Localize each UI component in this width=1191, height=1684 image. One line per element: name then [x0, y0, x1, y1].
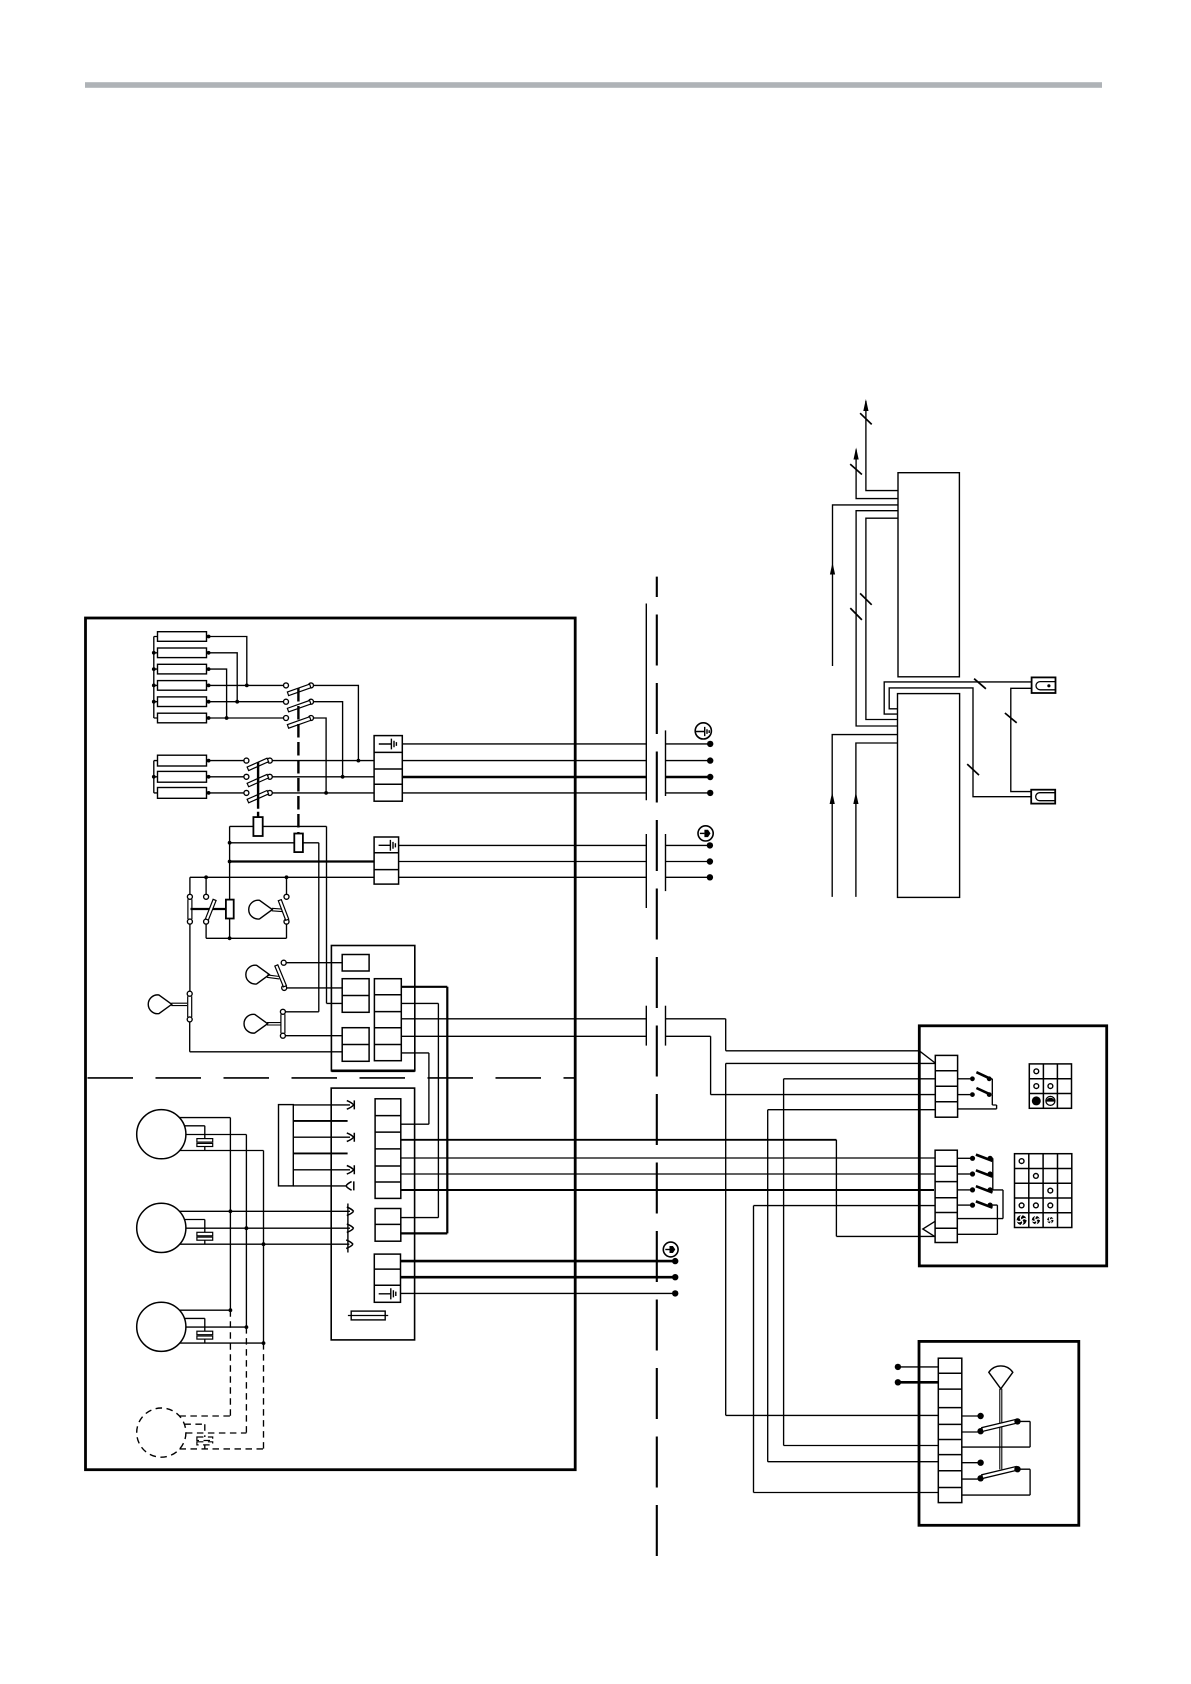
wire P2 to lamp connector CN2: [889, 688, 1031, 797]
KS3 wires: [286, 963, 342, 988]
wire W2 through MC1: [230, 843, 319, 1012]
vane sensor: [989, 1366, 1013, 1389]
compressor motor M1: [137, 1110, 186, 1159]
FB contact set 2: [962, 1462, 978, 1464]
contactor coil MC1 (drives K1): [294, 834, 303, 853]
control return wire: [206, 937, 286, 939]
heater bank A (6 resistors R1-R6): [158, 632, 207, 723]
wire CB u1 to fan box FB: [726, 1063, 939, 1415]
CB contact l1: [957, 1157, 970, 1159]
wire X3 to CB terminal 3: [666, 1036, 936, 1094]
optional motor M4 (dashed): [137, 1310, 264, 1457]
connector interface X2 bars: [645, 834, 647, 908]
arrowhead up (mid line): [830, 563, 835, 575]
cable break slash: [967, 764, 979, 775]
entry diagonal: [919, 1051, 935, 1063]
wire P2 to lamp connector CN1: [884, 682, 1031, 714]
RB2 out c5: [401, 1173, 935, 1175]
bank B left bus: [154, 761, 158, 793]
bank A terminal dots: [207, 635, 211, 720]
wire R3 to row6: [207, 669, 227, 718]
relay unit RB2: [331, 1088, 414, 1340]
CB contact u2: dots and blade: [958, 1078, 970, 1080]
CB contact u3: dots and blade: [958, 1094, 970, 1096]
fan box FB (bottom right): [919, 1341, 1079, 1525]
power supply symbol G3: [663, 1242, 678, 1257]
breaker F1 (capsule): [189, 877, 191, 894]
junction dot: [341, 775, 345, 779]
RB1 output terminal column: [374, 979, 401, 1061]
wire P1 pin4 to P2: [856, 511, 898, 726]
cable break slash: [974, 679, 986, 689]
arrowhead up: [830, 792, 835, 804]
junction dot: [235, 700, 239, 704]
junction dots: [229, 1209, 266, 1246]
earth terminal symbol G1: [695, 723, 711, 739]
RB1 relay cell C: [342, 1028, 369, 1062]
relay unit RB1: [331, 946, 414, 1071]
RB1 relay cell A: [342, 955, 369, 972]
bank A left bus: [154, 637, 158, 719]
K1 mechanical link (dashed): [297, 688, 299, 834]
earth symbol in TB1: [379, 739, 397, 750]
junction dots: [204, 875, 288, 879]
connector interface X3 bars: [645, 1006, 647, 1046]
refrigerant pipe box P2 (bottom): [898, 694, 960, 898]
X2 wire end dots: [707, 842, 713, 880]
arrowhead up: [854, 448, 859, 460]
arrowhead up: [863, 399, 868, 411]
RB1 out5 to RB2: [401, 1053, 429, 1124]
CNB wire 2: [293, 1120, 347, 1122]
switch K2 pole c: [207, 792, 244, 794]
RB1 out4: [401, 1035, 646, 1037]
cable break slash: [860, 413, 872, 424]
terminal block TB2: [374, 837, 399, 884]
FB input stub 2 (bold): [895, 1379, 901, 1385]
RB1 out1 (bold) to RB2: [401, 987, 448, 1234]
cable break slash: [860, 593, 872, 604]
switch K1 pole b: [207, 701, 284, 703]
fork into CB cells 5/6: [923, 1221, 935, 1236]
cable break slash: [850, 464, 862, 474]
cable break slash: [850, 608, 862, 620]
field wiring divider (vertical dashed): [656, 577, 658, 1559]
wire CB u4 to FB: [768, 1110, 939, 1462]
key switch KS2: [148, 995, 172, 1014]
RB2 middle terminal column: [375, 1209, 401, 1242]
FB input stub 1: [895, 1364, 901, 1370]
heater bank B (3 resistors R7-R9): [158, 755, 207, 798]
key switch KS3: [246, 965, 270, 984]
wire P2 down-left arrow 2: [856, 743, 898, 897]
connector CN2: [1031, 790, 1055, 804]
switch K2 pole b: [207, 776, 244, 778]
battery feed wire (bold): [230, 860, 375, 862]
connector CN1: [1032, 677, 1056, 693]
RB2 lower terminal column: [374, 1254, 400, 1302]
MC3 mechanical link (bold): [191, 908, 226, 910]
TB2 wires to connector: [399, 844, 647, 846]
RB2 out c4: [401, 1157, 935, 1159]
control bus vertical: [229, 826, 231, 938]
wire P1 pin5 to P2: [866, 518, 898, 719]
fuse F2: [351, 1311, 385, 1320]
contactor coil MC2 (drives K2): [253, 817, 262, 836]
CB indicator grid 4x5: [1015, 1154, 1072, 1228]
compressor motor M2: [137, 1203, 186, 1252]
power supply symbol G2: [698, 826, 713, 841]
terminal block TB1: [374, 736, 402, 802]
bank B terminal dots: [207, 759, 211, 795]
wire end dots: [672, 1258, 678, 1297]
fan icons: [1017, 1215, 1054, 1225]
junction dot: [225, 716, 229, 720]
section divider (horizontal dashed): [88, 1077, 576, 1079]
control box CB (indoor): [919, 1026, 1106, 1266]
CB lower terminal column: [935, 1150, 957, 1242]
CNB wire 4: [293, 1152, 347, 1154]
connector interface X1 bars: [645, 604, 647, 801]
RB1 out3: [401, 1018, 646, 1020]
RB2 upper terminal column: [375, 1099, 401, 1199]
X2 field-side wires: [666, 844, 710, 846]
bus junction dot: [152, 775, 156, 779]
wire CB l4 to FB: [754, 1206, 939, 1493]
switch K1 pole c: [207, 717, 284, 719]
RB2 out c6: [401, 1189, 934, 1191]
wire W1 through MC2: [230, 826, 343, 1003]
CB indicator grid 3x3: [1029, 1064, 1071, 1108]
bus junction dots: [152, 651, 156, 704]
wire P1 pin2 to up-arrow: [856, 450, 898, 499]
connector block CNB: [279, 1105, 294, 1186]
K2 mechanical link (solid): [257, 762, 259, 817]
junction dots: [228, 841, 232, 940]
arrowhead up: [853, 792, 858, 804]
CNB wire 3 with plug arrow: [293, 1136, 350, 1138]
earth symbol in TB2: [379, 840, 396, 851]
plug arrows into RB2: [347, 1207, 354, 1216]
switch K1 pole a: [207, 684, 284, 686]
X1 wire end dots: [707, 741, 713, 796]
outdoor unit enclosure box: [86, 618, 576, 1470]
CNB wire 1 with plug arrow: [293, 1104, 350, 1106]
switch capsule S2: [187, 991, 192, 996]
X1 field-side wires: [666, 743, 711, 745]
motor bus verticals: [230, 1118, 263, 1344]
FB terminal column: [938, 1358, 962, 1502]
wire R2 to row5: [207, 653, 238, 702]
cable break slash: [1005, 713, 1017, 723]
RB1 relay cell B: [342, 979, 369, 1013]
CB contact l4: [957, 1204, 970, 1206]
RB1 out2 to RB2: [401, 1003, 439, 1217]
RB2 out c3 (bold) to CB jog: [401, 1139, 837, 1141]
CB contact l3: [957, 1189, 970, 1191]
TB1 wires to connector: [402, 743, 646, 745]
earth symbol in RB2: [379, 1288, 396, 1299]
junction dots: [229, 1308, 266, 1345]
switch K2 pole a: [207, 760, 244, 762]
wire CN1 to CN2: [1011, 688, 1032, 791]
wire P1 pin3 open-ended: [833, 505, 899, 666]
wire CB u2 to FB: [784, 1079, 939, 1446]
key switch KS4: [244, 1014, 268, 1033]
compressor motor M3: [137, 1302, 186, 1351]
KS4 bottom wire: [285, 1035, 342, 1037]
header rule: [85, 82, 1102, 88]
control wire to TB2: [190, 876, 374, 878]
CB contact l2: [957, 1173, 970, 1175]
wire S2 to relay unit: [190, 1022, 343, 1052]
wire P2 down-left arrow 1: [832, 735, 897, 897]
wire P1 pin1 to up-arrow: [866, 401, 898, 491]
wire R1 to row4: [207, 637, 247, 686]
CNB wire 5 with plug arrow: [293, 1169, 350, 1171]
CB upper terminal column: [935, 1055, 957, 1117]
FB contact set 1: [962, 1415, 978, 1417]
key switch KS1: [249, 900, 273, 919]
protector relay coil MC3: [226, 900, 234, 919]
RB2 bottom outputs to supply dots: [401, 1260, 676, 1263]
junction dot: [324, 791, 328, 795]
contact S1 with blade: [205, 877, 207, 894]
CNB wire 6 with unplug arrow: [293, 1185, 346, 1187]
wire X3 to control box CB terminal 1: [666, 1019, 920, 1051]
junction dot: [357, 759, 361, 763]
connector bar at motor leads: [347, 1204, 349, 1253]
junction dot: [245, 684, 249, 688]
switch capsule S3: [280, 1009, 285, 1014]
refrigerant pipe box P1 (top): [898, 473, 959, 677]
